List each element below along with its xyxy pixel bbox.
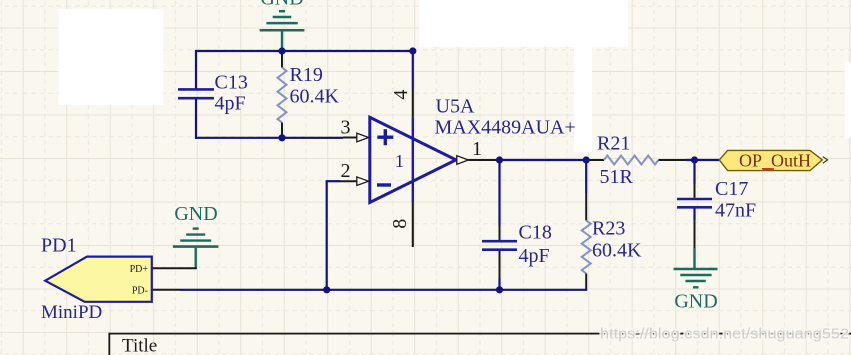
svg-text:1: 1	[472, 138, 482, 160]
svg-text:60.4K: 60.4K	[290, 86, 340, 108]
svg-text:4pF: 4pF	[519, 245, 550, 267]
svg-text:8: 8	[389, 219, 411, 229]
svg-text:2: 2	[341, 160, 351, 182]
svg-text:https://blog.csdn.net/shuguang: https://blog.csdn.net/shuguang552	[600, 327, 849, 343]
svg-text:Title: Title	[122, 336, 157, 355]
svg-text:PD1: PD1	[41, 235, 77, 257]
svg-text:4pF: 4pF	[215, 93, 246, 115]
svg-text:PD+: PD+	[130, 264, 149, 275]
svg-text:C18: C18	[519, 222, 552, 244]
svg-text:1: 1	[395, 151, 404, 171]
svg-text:47nF: 47nF	[715, 200, 756, 222]
svg-text:MAX4489AUA+: MAX4489AUA+	[435, 117, 576, 139]
svg-text:U5A: U5A	[436, 96, 475, 118]
svg-text:4: 4	[390, 90, 412, 100]
svg-text:GND: GND	[174, 203, 217, 225]
svg-text:C17: C17	[715, 178, 748, 200]
svg-text:GND: GND	[674, 291, 717, 313]
svg-text:R21: R21	[597, 133, 630, 155]
svg-text:60.4K: 60.4K	[592, 240, 642, 262]
svg-text:MiniPD: MiniPD	[41, 302, 102, 323]
svg-text:PD-: PD-	[132, 285, 148, 296]
svg-text:OP_OutH: OP_OutH	[739, 151, 811, 171]
svg-text:R19: R19	[290, 64, 323, 86]
svg-text:C13: C13	[215, 72, 248, 94]
svg-text:51R: 51R	[600, 166, 634, 188]
svg-text:R23: R23	[592, 218, 625, 240]
svg-text:GND: GND	[260, 0, 303, 10]
svg-text:3: 3	[341, 117, 351, 139]
